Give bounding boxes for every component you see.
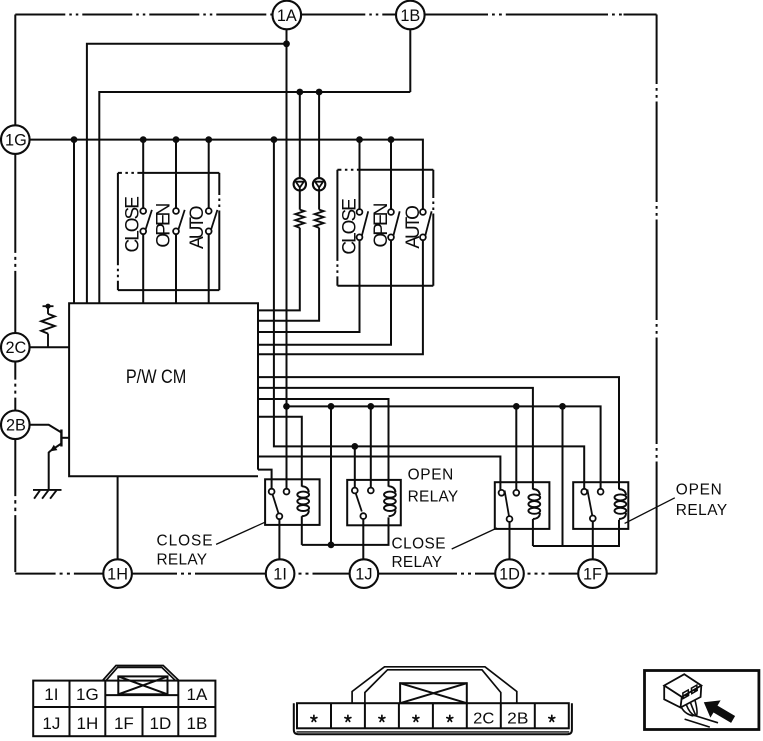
switch AUTO (SW1) upper wire <box>208 140 210 209</box>
svg-text:1J: 1J <box>42 714 60 733</box>
label OPEN RELAY (K2) <box>408 466 459 505</box>
svg-text:2C: 2C <box>5 339 26 357</box>
wire 1B lamp feed line y=92 into P/W CM <box>99 92 410 303</box>
wire coil return line K1-K2 <box>302 517 389 545</box>
svg-text:1D: 1D <box>150 714 172 733</box>
svg-text:1G: 1G <box>5 132 27 150</box>
wire bottom bus segment 1J to 1D <box>378 573 495 575</box>
wire 1A feed line y=43.8 into P/W CM <box>87 44 287 304</box>
wire 1G to P/W CM top <box>73 140 75 304</box>
node dot relay K2 contact A <box>351 443 358 450</box>
wire w8 P/W CM to relay K2 coil <box>258 399 389 487</box>
lamp L2 <box>313 178 325 190</box>
switch OPEN (SW2) upper wire <box>390 140 392 210</box>
relay K3 coil <box>528 489 540 519</box>
connector C2 asterisks <box>311 715 555 721</box>
switch CLOSE (SW2) <box>357 209 369 240</box>
relay K3 contacts <box>499 490 520 522</box>
svg-text:RELAY: RELAY <box>392 554 443 571</box>
wire bus branch to K1 K2 coil return <box>330 406 332 545</box>
node dots on relay supply bus <box>283 403 566 410</box>
svg-text:OPEN: OPEN <box>676 482 722 499</box>
switch CLOSE (SW2) upper wire <box>359 140 361 210</box>
connector C2 labels <box>473 711 528 728</box>
switch OPEN (SW1) <box>173 208 185 234</box>
svg-text:1I: 1I <box>44 685 58 704</box>
pin circle 1D <box>495 559 524 588</box>
wire resistor R2 into P/W CM (w1) <box>258 228 300 311</box>
wire bottom bus segment 1H to 1I <box>132 573 266 575</box>
svg-text:1A: 1A <box>187 685 208 704</box>
wire switch OPEN (SW2) to P/W CM (w4) <box>258 240 391 345</box>
svg-text:AUTO: AUTO <box>187 205 208 249</box>
wire right border <box>656 15 658 574</box>
wire 1G line y=139.6 (to switch box 2 AUTO) <box>30 140 423 210</box>
connector icon plug terminals <box>683 685 697 698</box>
connector C1 keyway box <box>118 676 167 694</box>
svg-text:RELAY: RELAY <box>408 488 459 505</box>
wire relay K3 blade to 1D <box>509 522 511 559</box>
pin circle 1G <box>1 125 30 154</box>
wire bus branch to K3 K4 coil return <box>562 406 564 546</box>
switch CLOSE (SW1) <box>140 208 152 234</box>
wire top border right of 1B <box>425 14 657 16</box>
wire left border 3 (2C to 2B) <box>14 362 16 411</box>
switch AUTO (SW2) <box>420 209 432 240</box>
relay K4 box <box>573 482 628 529</box>
pin circle 1F <box>578 559 607 588</box>
wire lamp L2 to resistor R3 <box>318 191 320 210</box>
svg-text:2C: 2C <box>473 711 494 728</box>
P/W CM box U1 <box>69 303 258 476</box>
wire resistor R3 into P/W CM (w2) <box>258 228 319 321</box>
svg-text:P/W CM: P/W CM <box>126 366 187 388</box>
wire lamp L1 branch upper <box>299 92 301 178</box>
svg-text:2B: 2B <box>6 417 26 435</box>
switch OPEN (SW2) <box>388 209 400 240</box>
wire top border 1A to 1B <box>301 14 396 16</box>
svg-text:1H: 1H <box>77 714 99 733</box>
wire w12 P/W CM to relay K1 contact A <box>258 470 272 489</box>
connector icon frame <box>645 671 759 730</box>
connector icon wires <box>682 700 719 727</box>
svg-text:1I: 1I <box>273 566 287 584</box>
svg-text:1G: 1G <box>76 685 99 704</box>
switch AUTO (SW1) <box>206 208 218 234</box>
wire bus branch to relay K3 contact B <box>515 406 517 490</box>
wire 1B drop (1B to lamp feed line) <box>409 29 411 92</box>
relay K1 box <box>265 479 320 525</box>
wire top border left dash-dot (to 1A) <box>15 14 272 16</box>
svg-text:CLOSE: CLOSE <box>123 196 144 253</box>
relay K4 coil <box>615 489 627 519</box>
relay K1 coil <box>297 486 309 516</box>
wire switch CLOSE (SW2) to P/W CM (w3) <box>258 240 360 332</box>
wire switch OPEN (SW1) to P/W CM <box>175 234 177 303</box>
wire left border 2 (1G to 2C) <box>14 154 16 333</box>
lamp L1 <box>294 178 306 190</box>
resistor R1 pullup at 2C <box>41 304 55 348</box>
wire 1A relay supply bus y=406.4 to relay K4 contact B <box>287 406 601 489</box>
wire w11 P/W CM to relay K3 contact A <box>258 457 500 491</box>
connector C2 key bump <box>352 667 517 703</box>
svg-text:1F: 1F <box>583 566 602 584</box>
relay K4 contacts <box>581 489 603 521</box>
node dots on 1G line <box>71 136 395 143</box>
wire lamp L1 to resistor R2 <box>299 191 301 210</box>
svg-text:AUTO: AUTO <box>403 205 424 249</box>
svg-text:1B: 1B <box>187 714 208 733</box>
node dot coil return K1-K2 <box>328 542 335 549</box>
pin circle 1A <box>273 1 302 30</box>
wire w9 P/W CM to relay K1 coil <box>258 417 302 487</box>
wire 2C to P/W CM <box>30 346 69 348</box>
svg-text:OPEN: OPEN <box>371 203 392 248</box>
switch box SW2 border <box>337 170 433 286</box>
svg-text:1D: 1D <box>499 566 520 584</box>
wire switch AUTO (SW1) to P/W CM <box>208 234 210 303</box>
pin circle 1I <box>266 559 295 588</box>
wire 1A drop (1A to relay K1 contact B, junctions at y=43.8 and bus y=406.4) <box>286 29 288 489</box>
relay K3 box <box>495 482 550 529</box>
svg-text:CLOSE: CLOSE <box>340 198 361 255</box>
pin circle 1J <box>350 559 379 588</box>
wire relay K1 coil return <box>301 516 303 545</box>
label CLOSE RELAY (K1) pointer <box>216 522 265 544</box>
wire bottom bus segment 1I to 1J <box>299 573 350 575</box>
relay K2 box <box>347 480 401 525</box>
label OPEN RELAY (K4) pointer <box>625 498 675 524</box>
wire relay K3 coil return <box>532 519 534 546</box>
svg-text:RELAY: RELAY <box>676 502 727 519</box>
svg-text:1B: 1B <box>400 7 420 25</box>
wire relay K1 blade to 1I <box>278 519 280 559</box>
pin circle 1B <box>396 1 425 30</box>
label OPEN RELAY (K4) <box>676 482 727 519</box>
svg-text:1J: 1J <box>355 566 372 584</box>
wire lamp L2 branch upper <box>318 92 320 178</box>
relay K2 coil <box>384 486 396 516</box>
node dot on 1A feed line <box>283 40 290 47</box>
wire w7 P/W CM to relay K3 coil <box>258 388 533 490</box>
label CLOSE RELAY (K3) <box>392 535 446 571</box>
wire relay K2 blade to 1J <box>362 519 364 559</box>
switch labels SW1 <box>123 196 208 253</box>
ground <box>33 490 62 499</box>
connector C1 labels <box>42 685 208 733</box>
wire bottom bus segment border to 1H <box>15 573 103 575</box>
wire relay K4 blade to 1F <box>592 521 594 559</box>
relay K2 contacts <box>352 488 374 519</box>
pin circle 2C <box>1 333 30 362</box>
pin circle 1H <box>103 559 132 588</box>
connector C2 keyway box <box>400 683 467 703</box>
switch box SW1 border <box>118 173 219 290</box>
connector icon arrow <box>704 700 735 723</box>
wire bus branch to relay K2 contact B <box>370 406 372 487</box>
transistor Q1 <box>50 430 69 452</box>
wire P/W CM to 1H <box>117 476 119 559</box>
connector C1 key bump <box>102 666 178 682</box>
switch CLOSE (SW1) upper wire <box>142 140 144 209</box>
wire switch CLOSE (SW1) to P/W CM <box>142 234 144 303</box>
svg-text:1A: 1A <box>277 7 297 25</box>
svg-text:OPEN: OPEN <box>408 466 454 483</box>
svg-text:CLOSE: CLOSE <box>392 535 446 552</box>
wire 1G down to relay contact line <box>274 140 584 489</box>
resistor R3 <box>315 210 324 228</box>
svg-text:2B: 2B <box>507 711 528 728</box>
connector icon 3d plug <box>664 674 701 707</box>
node dots on lamp feed line <box>296 89 322 96</box>
connector C2 outline <box>294 703 572 734</box>
wire relay K2 contact A branch <box>354 446 356 487</box>
wire 2B to transistor Q1 base <box>30 425 61 433</box>
resistor R2 <box>295 210 304 228</box>
connector C1 outline <box>33 681 215 737</box>
relay K1 contacts <box>269 489 290 519</box>
switch OPEN (SW1) upper wire <box>175 140 177 209</box>
label CLOSE RELAY (K1) <box>157 532 213 568</box>
svg-text:1F: 1F <box>114 714 134 733</box>
svg-text:1H: 1H <box>107 566 128 584</box>
pin circle 2B <box>1 411 30 440</box>
wire coil return line K3-K4 <box>533 520 619 546</box>
wire bottom bus segment 1F to right border <box>607 573 657 575</box>
svg-text:CLOSE: CLOSE <box>157 532 213 549</box>
wire transistor Q1 emitter to ground <box>49 451 51 490</box>
svg-text:RELAY: RELAY <box>157 552 208 569</box>
svg-text:OPEN: OPEN <box>153 203 174 248</box>
switch labels SW2 <box>340 198 425 255</box>
wire left border 4 (2B to bottom corner) <box>14 439 16 573</box>
label CLOSE RELAY (K3) pointer <box>452 528 497 549</box>
wire bottom bus segment 1D to 1F <box>528 573 579 575</box>
wire switch AUTO (SW2) to P/W CM (w5) <box>258 240 423 354</box>
wire left border 1 (top corner to 1G) <box>14 15 16 126</box>
wire w6 P/W CM to relay K4 coil <box>258 377 619 489</box>
